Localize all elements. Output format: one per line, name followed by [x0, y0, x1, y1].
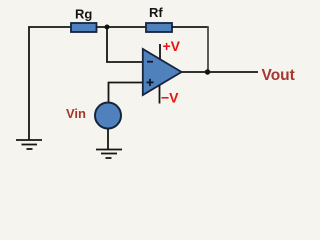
svg-text:Rf: Rf — [149, 5, 163, 20]
ground (below Vin source) — [96, 150, 122, 159]
node A (junction dot: Rg / Rf / inverting input) — [105, 25, 110, 30]
node B (output junction dot) — [205, 69, 210, 74]
wire: output to Vout — [182, 71, 259, 73]
pin -V (negative supply) — [159, 85, 161, 104]
pin - (inverting input mark) — [147, 61, 153, 63]
svg-text:Vout: Vout — [262, 67, 295, 84]
svg-text:Rg: Rg — [75, 7, 92, 22]
op-amp U1 — [143, 49, 182, 95]
source Vin (circle symbol) — [95, 103, 121, 129]
pin + (non-inverting input mark) — [147, 79, 154, 86]
resistor Rf — [146, 23, 172, 32]
wire: left vertical from top rail to ground — [29, 27, 71, 140]
resistor Rg — [71, 23, 97, 32]
svg-text:−V: −V — [161, 90, 179, 106]
wire: Rf to feedback corner — [172, 26, 208, 28]
wire: Vin source down to ground — [107, 129, 109, 150]
svg-text:+V: +V — [163, 38, 181, 54]
svg-text:Vin: Vin — [66, 106, 86, 121]
pin +V (positive supply) — [159, 44, 161, 60]
ground (left, below Rg branch) — [16, 140, 42, 149]
wire: node A down to inverting input — [107, 28, 143, 62]
wire: Vin source up to non-inverting input — [109, 83, 143, 102]
wire: feedback vertical down to output node — [207, 26, 209, 72]
wire: Rg to node A — [97, 26, 147, 28]
